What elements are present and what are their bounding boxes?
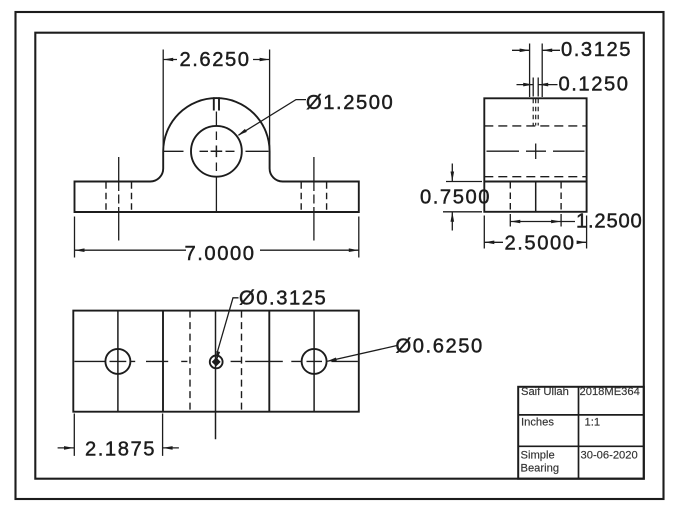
side view bore hidden top — [484, 125, 586, 127]
leader Ø0.3125 arrowhead — [216, 351, 220, 362]
dim 0.1250 line — [517, 84, 558, 86]
bore vertical centerline — [215, 112, 217, 212]
top view center vertical line — [215, 311, 217, 440]
side view outline — [484, 98, 586, 212]
dim 2.1875 arrows — [64, 446, 173, 450]
right hole hidden lines front — [301, 182, 326, 211]
top view center small hole — [210, 356, 223, 369]
dim 2.6250 arrows — [163, 58, 269, 62]
top view arch edge line left — [162, 311, 164, 412]
top view horizontal centerline — [74, 360, 358, 362]
dim 0.1250 extension lines — [533, 78, 538, 97]
svg-text:Ø0.3125: Ø0.3125 — [239, 287, 327, 309]
dim 2.5000 extension lines — [484, 216, 586, 249]
top view bore hidden line left — [189, 311, 191, 412]
top view outline — [73, 311, 359, 412]
center hole dark fill — [212, 357, 221, 366]
dim 0.7500 extension lines — [443, 182, 482, 212]
dim 0.7500 arrows — [451, 172, 455, 222]
dim 0.3125 line — [512, 49, 560, 51]
top view left hole vertical line — [117, 311, 119, 412]
svg-text:2018ME364: 2018ME364 — [580, 386, 640, 398]
side view bore centerline — [487, 150, 585, 152]
left hole centerline front — [118, 157, 120, 241]
dim 2.5000 arrows — [484, 241, 586, 245]
svg-text:2.6250: 2.6250 — [180, 49, 251, 71]
top view arch edge line right — [268, 311, 270, 412]
title block row line 1 — [518, 414, 644, 416]
top view right hole vertical line — [313, 311, 315, 412]
dim 0.3125 extension lines — [530, 44, 543, 98]
side view bore hidden bottom — [484, 176, 586, 178]
leader Ø1.2500 arrowhead — [237, 129, 246, 136]
svg-text:0.1250: 0.1250 — [559, 74, 630, 96]
left hole hidden lines front — [106, 182, 132, 211]
side view hidden holes in base — [510, 182, 561, 212]
svg-text:Ø0.6250: Ø0.6250 — [396, 336, 484, 358]
right hole centerline front — [313, 157, 315, 241]
svg-text:Bearing: Bearing — [521, 462, 560, 474]
top view bore hidden line right — [241, 311, 243, 412]
dim 2.6250 line — [163, 59, 269, 61]
dim 2.1875 extension lines — [74, 414, 162, 456]
dim 7.0000 arrows — [75, 248, 359, 252]
dim 2.6250 extension lines — [163, 50, 269, 152]
svg-text:0.7500: 0.7500 — [420, 187, 491, 209]
side view center vertical in base — [535, 182, 537, 212]
bore horizontal centerline — [164, 150, 269, 152]
svg-text:Ø1.2500: Ø1.2500 — [306, 92, 394, 114]
top view right hole — [302, 349, 327, 374]
dim 1.2500 arrows — [510, 220, 561, 224]
bore circle — [191, 126, 242, 177]
dim 0.3125 arrows — [520, 49, 553, 53]
side view slot hidden dashes — [533, 99, 538, 126]
svg-text:7.0000: 7.0000 — [185, 243, 256, 265]
leader Ø0.3125 — [217, 298, 238, 353]
dim 1.2500 extension lines — [510, 214, 561, 227]
dim 7.0000 extension lines — [75, 217, 359, 258]
bore crosshair — [211, 146, 223, 158]
dim 1.2500 line — [510, 221, 575, 223]
title block column line — [578, 387, 580, 479]
svg-text:Inches: Inches — [521, 416, 554, 428]
slot at top of arch — [214, 97, 219, 110]
leader Ø0.6250 arrowhead — [327, 357, 337, 361]
svg-text:Saif Ullah: Saif Ullah — [521, 386, 569, 398]
inner border frame — [35, 33, 644, 479]
dim 0.7500 line — [451, 164, 453, 231]
svg-text:1:1: 1:1 — [585, 416, 601, 428]
svg-text:2.5000: 2.5000 — [505, 233, 576, 255]
dim 0.1250 arrows — [523, 83, 548, 87]
side view base top line — [484, 181, 586, 183]
leader Ø0.6250 — [328, 346, 398, 362]
svg-text:Simple: Simple — [521, 449, 555, 461]
top view left hole — [105, 349, 130, 374]
side view center vertical mark — [535, 144, 537, 160]
svg-text:30-06-2020: 30-06-2020 — [581, 449, 638, 461]
body outline front view — [75, 98, 359, 212]
dim 7.0000 line — [75, 249, 359, 251]
svg-text:0.3125: 0.3125 — [561, 39, 632, 61]
dim 2.1875 line — [58, 447, 179, 449]
title block outline — [518, 387, 644, 479]
title block row line 2 — [518, 445, 644, 447]
svg-text:2.1875: 2.1875 — [85, 439, 156, 461]
dim 2.5000 line — [484, 241, 586, 243]
leader Ø1.2500 — [239, 100, 307, 136]
